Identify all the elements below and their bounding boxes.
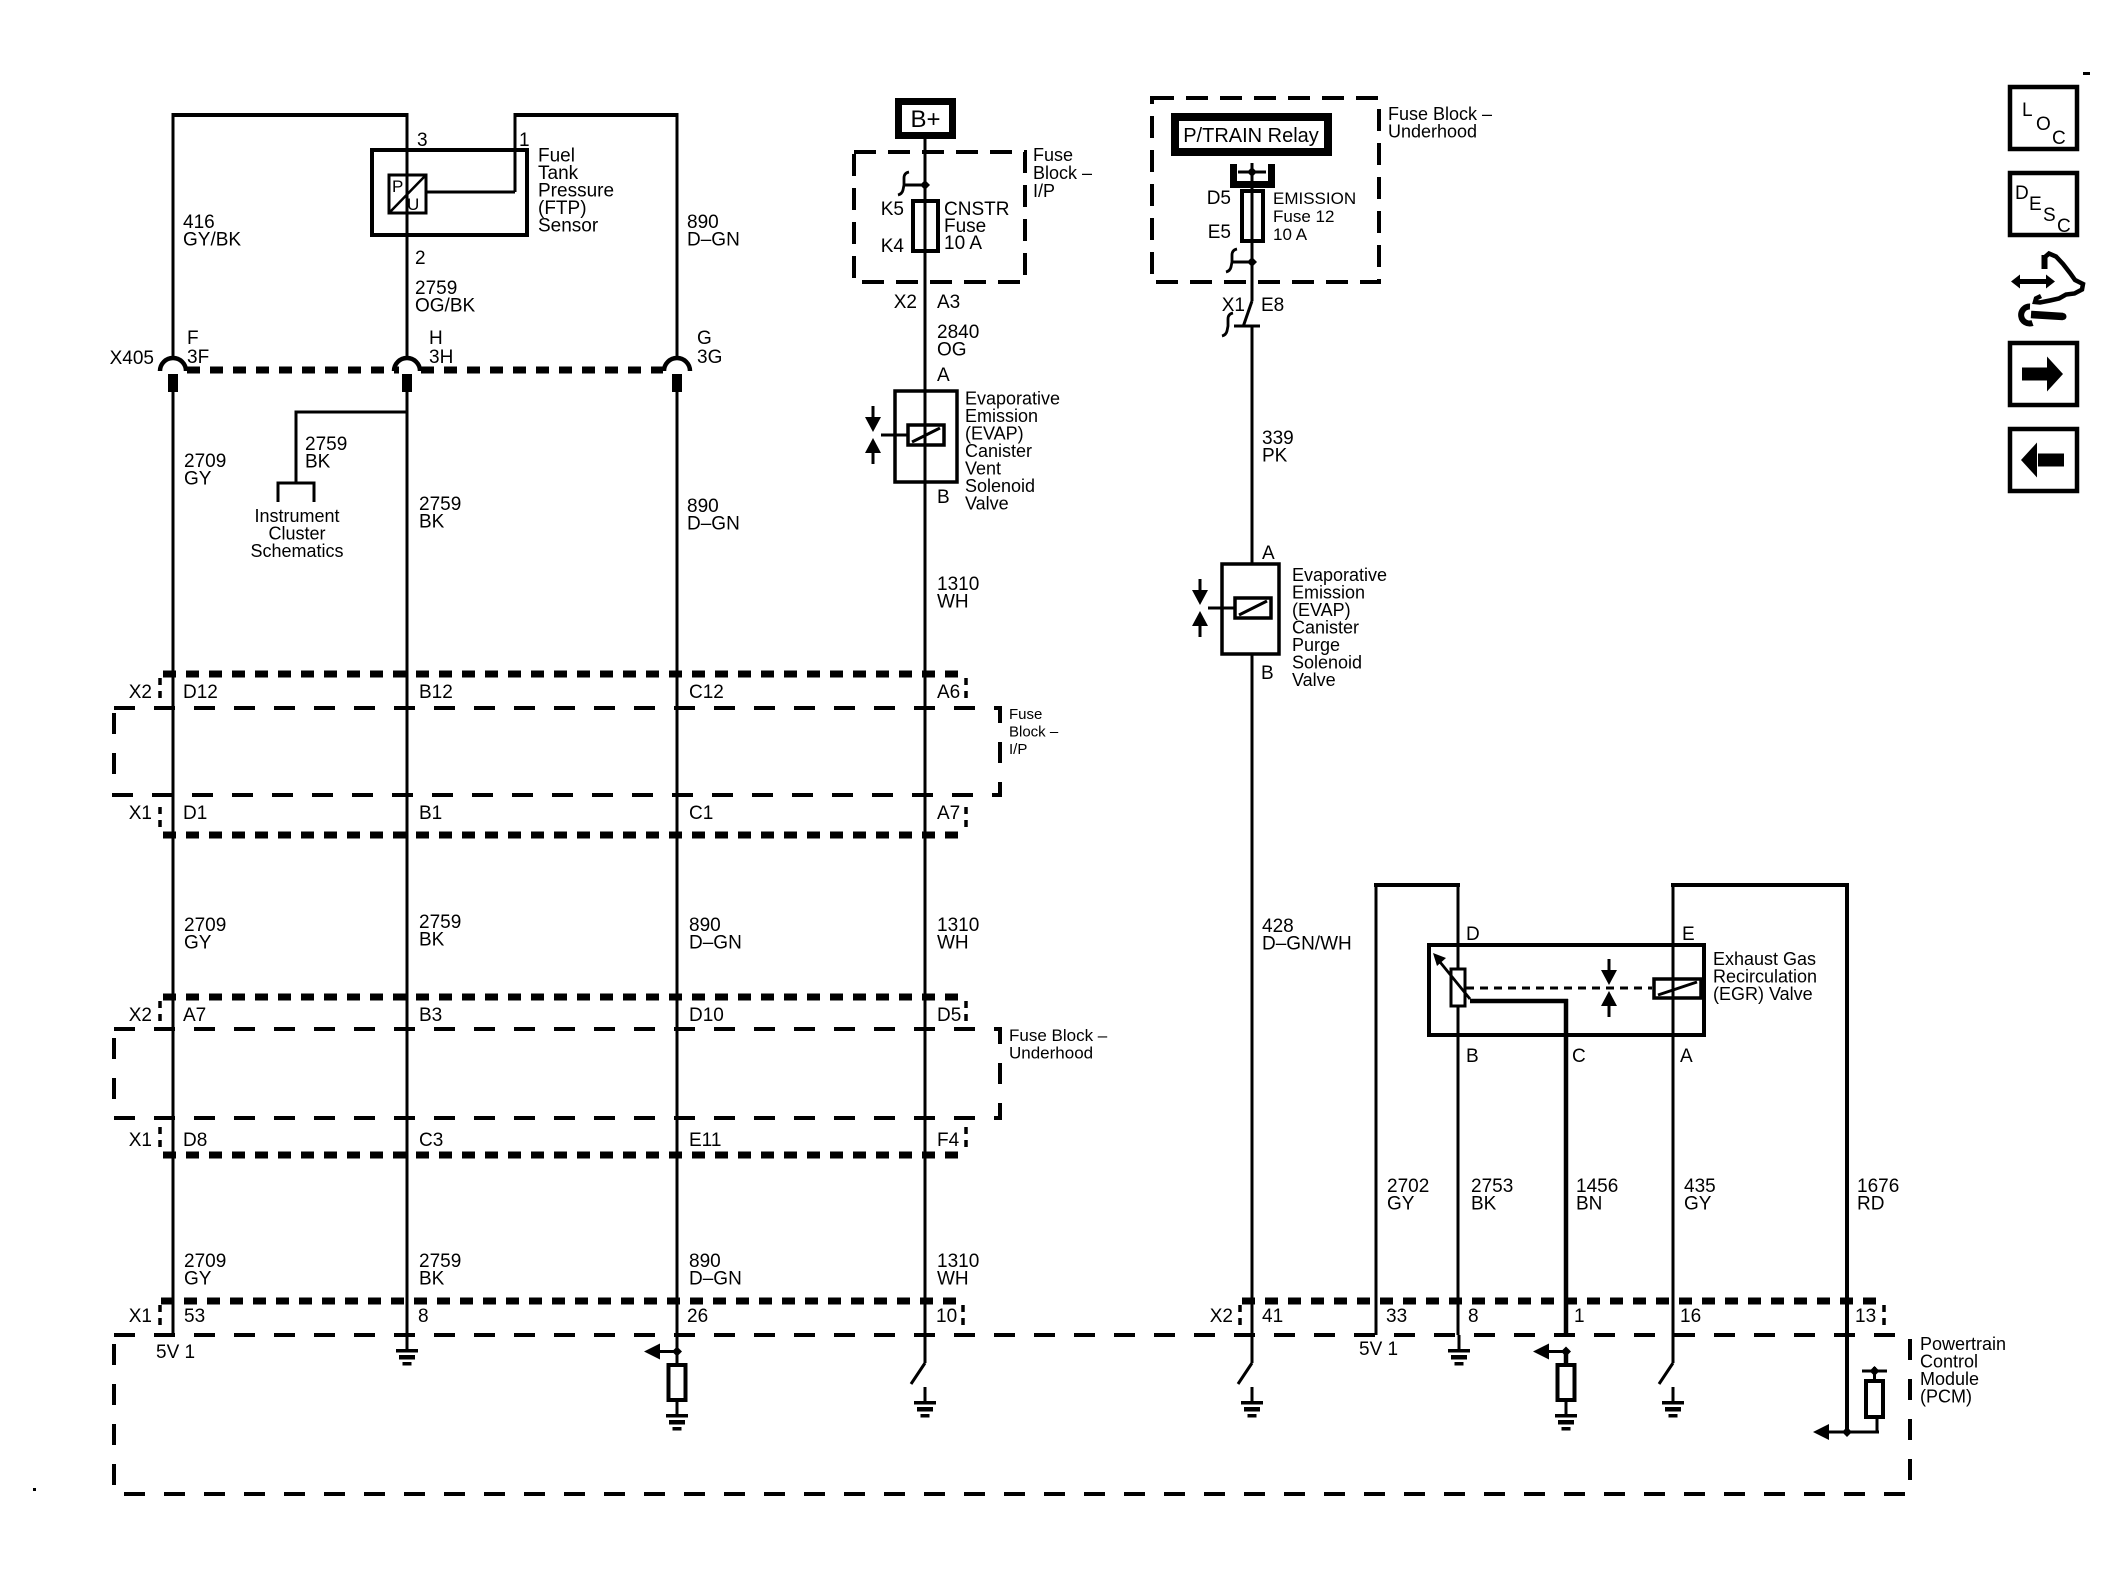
PCM output driver pin 26 (660, 1350, 677, 1353)
internal connection hook CNSTR (903, 184, 925, 187)
wire 2759 OG/BK pin 2 (406, 113, 409, 359)
wire 416 GY/BK vertical (172, 113, 175, 359)
connector X405 dashed line (187, 367, 399, 374)
svg-text:D10: D10 (689, 1005, 724, 1026)
connector row X2 PCM dotted line (1242, 1298, 1884, 1305)
svg-text:E8: E8 (1261, 295, 1284, 316)
car diagnostic icon outline (2042, 255, 2048, 269)
relay output bracket (1234, 164, 1272, 185)
svg-text:A7: A7 (183, 1005, 206, 1026)
EGR potentiometer (1451, 969, 1465, 1006)
svg-text:3: 3 (417, 130, 428, 151)
PCM switch to ground pin 16 (1659, 1363, 1673, 1384)
connector row X1 fuse block I/P dotted line (163, 832, 966, 839)
connector row X1 fuse block underhood dotted line (163, 1152, 966, 1159)
svg-text:C12: C12 (689, 682, 724, 703)
fuse block underhood dashed outline (114, 1029, 1000, 1118)
svg-text:2: 2 (415, 248, 426, 269)
svg-text:WH: WH (937, 592, 969, 613)
svg-text:B: B (1261, 663, 1274, 684)
LOC icon box (2010, 87, 2077, 149)
svg-text:Fuse 12: Fuse 12 (1273, 207, 1334, 226)
svg-text:Sensor: Sensor (538, 216, 599, 237)
svg-text:X1: X1 (1222, 295, 1245, 316)
svg-text:E5: E5 (1208, 222, 1231, 243)
fuse block underhood dashed box (1152, 98, 1379, 282)
connector X405 terminal F bump (160, 358, 186, 371)
wire 2759 BK vertical (406, 392, 409, 1335)
svg-text:BK: BK (305, 452, 331, 473)
svg-text:Valve: Valve (965, 494, 1009, 514)
fuse block I/P dashed outline (114, 708, 1000, 795)
back arrow icon box (2010, 429, 2077, 491)
svg-text:Fuse: Fuse (1009, 706, 1042, 723)
svg-text:3F: 3F (187, 347, 209, 368)
svg-text:OG: OG (937, 340, 967, 361)
car diagnostic icon double arrow (2019, 279, 2047, 284)
svg-text:X405: X405 (110, 348, 154, 369)
vent valve stub to pneumatic valve (881, 434, 895, 437)
branch wire to instrument cluster (296, 411, 407, 414)
svg-text:A3: A3 (937, 292, 960, 313)
svg-text:F4: F4 (937, 1130, 960, 1151)
PCM output driver pin 1 (1549, 1350, 1566, 1353)
svg-text:PK: PK (1262, 446, 1288, 467)
junction diamond CNSTR feed (920, 180, 930, 190)
P/TRAIN relay box (1171, 113, 1332, 156)
svg-text:B3: B3 (419, 1005, 442, 1026)
svg-text:GY: GY (1387, 1194, 1415, 1215)
svg-text:A: A (937, 365, 950, 386)
fuel tank pressure sensor box (372, 150, 527, 235)
svg-text:13: 13 (1855, 1306, 1876, 1327)
svg-text:O: O (2036, 114, 2051, 135)
EGR solenoid coil (1654, 979, 1701, 998)
svg-text:B+: B+ (910, 106, 940, 133)
wire top horizontal to FTP pin 3 (172, 113, 409, 117)
PCM switch to ground pin 41 (1238, 1363, 1252, 1384)
svg-text:A6: A6 (937, 682, 960, 703)
forward arrow icon box (2010, 343, 2077, 405)
wire 2702 GY branch (1375, 883, 1378, 1335)
svg-text:BN: BN (1576, 1194, 1602, 1215)
EGR wiper thick wire (1470, 999, 1568, 1004)
svg-text:B: B (1466, 1046, 1479, 1067)
wire 339 PK with connector jog (1251, 282, 1254, 301)
svg-text:P/TRAIN Relay: P/TRAIN Relay (1183, 125, 1319, 147)
svg-text:U: U (407, 195, 419, 214)
FTP P/U transducer symbol (389, 175, 426, 213)
svg-text:10: 10 (936, 1306, 957, 1327)
svg-text:EMISSION: EMISSION (1273, 189, 1356, 208)
wire top horizontal FTP pin 1 to wire 890 (514, 113, 679, 117)
svg-text:5V 1: 5V 1 (1359, 1339, 1398, 1360)
svg-text:GY: GY (184, 1269, 212, 1290)
EGR pot arrow (1440, 962, 1470, 999)
svg-text:X2: X2 (894, 292, 917, 313)
purge valve stub to pneumatic valve (1208, 607, 1222, 610)
svg-text:(PCM): (PCM) (1920, 1387, 1972, 1407)
svg-text:Fuse: Fuse (1033, 145, 1073, 165)
svg-text:X1: X1 (129, 1306, 152, 1327)
svg-text:10 A: 10 A (1273, 225, 1308, 244)
svg-text:WH: WH (937, 933, 969, 954)
svg-text:RD: RD (1857, 1194, 1884, 1215)
connector row X1 PCM dotted line (161, 1298, 961, 1305)
svg-text:B12: B12 (419, 682, 453, 703)
svg-text:33: 33 (1386, 1306, 1407, 1327)
svg-text:D–GN: D–GN (687, 514, 740, 535)
svg-text:X2: X2 (129, 682, 152, 703)
wire 428 D-GN/WH vertical (1251, 654, 1254, 1363)
PCM driver pin 13 with pull-up (1829, 1431, 1879, 1434)
svg-text:D–GN: D–GN (689, 1269, 742, 1290)
svg-text:P: P (392, 177, 403, 196)
connector row X2 fuse block underhood dotted line (163, 994, 966, 1001)
svg-text:E11: E11 (689, 1130, 721, 1151)
EVAP canister purge solenoid valve box (1222, 564, 1279, 654)
powertrain control module dashed box (114, 1335, 1910, 1494)
vent valve solenoid coil (908, 425, 944, 445)
EGR pneumatic valve symbol (1608, 959, 1611, 971)
svg-text:I/P: I/P (1009, 741, 1027, 758)
wire relay to fuse 12 (1251, 172, 1254, 282)
svg-text:S: S (2043, 205, 2056, 226)
fuse block I/P dashed box (854, 152, 1025, 282)
svg-text:1: 1 (519, 130, 530, 151)
vent valve pneumatic symbol (872, 406, 875, 418)
svg-text:D: D (1466, 924, 1480, 945)
svg-text:C: C (2057, 216, 2071, 237)
svg-text:3G: 3G (697, 347, 722, 368)
svg-text:K5: K5 (881, 199, 904, 220)
PCM ground pin 8 left (406, 1335, 409, 1350)
svg-text:B: B (937, 487, 950, 508)
svg-text:E: E (1682, 924, 1695, 945)
wire FTP internal to P/U (426, 191, 515, 194)
goes-to bracket instrument cluster (278, 483, 314, 502)
svg-text:BK: BK (419, 1269, 445, 1290)
svg-text:C: C (2052, 128, 2066, 149)
wire 890 D-GN vertical 2 (676, 392, 679, 1352)
EMISSION fuse symbol (1242, 191, 1263, 241)
svg-text:C: C (1572, 1046, 1586, 1067)
svg-text:26: 26 (687, 1306, 708, 1327)
svg-text:H: H (429, 328, 443, 349)
EVAP canister vent solenoid valve box (895, 391, 957, 482)
svg-text:D5: D5 (1207, 188, 1231, 209)
svg-text:8: 8 (1468, 1306, 1479, 1327)
purge valve solenoid coil (1235, 598, 1271, 618)
svg-text:Fuse Block –: Fuse Block – (1009, 1026, 1108, 1045)
svg-text:A7: A7 (937, 803, 960, 824)
svg-text:Underhood: Underhood (1388, 122, 1477, 142)
svg-text:Block –: Block – (1033, 163, 1092, 183)
svg-text:X1: X1 (129, 803, 152, 824)
svg-text:53: 53 (184, 1306, 205, 1327)
EGR dashed actuation line (1466, 987, 1652, 990)
svg-text:B1: B1 (419, 803, 442, 824)
svg-text:OG/BK: OG/BK (415, 296, 476, 317)
svg-text:X2: X2 (1210, 1306, 1233, 1327)
svg-text:WH: WH (937, 1269, 969, 1290)
svg-text:GY: GY (1684, 1194, 1712, 1215)
connector row X2 fuse block I/P dotted line (163, 671, 966, 678)
DESC icon box (2010, 173, 2077, 235)
svg-text:GY: GY (184, 469, 212, 490)
svg-text:D12: D12 (183, 682, 218, 703)
purge valve pneumatic symbol (1199, 579, 1202, 591)
svg-text:X2: X2 (129, 1005, 152, 1026)
svg-text:X1: X1 (129, 1130, 152, 1151)
wire EGR pin D (1457, 885, 1460, 969)
internal connection hook emission fuse (1231, 261, 1252, 264)
svg-text:BK: BK (419, 930, 445, 951)
wire 2709 GY vertical (172, 392, 175, 1335)
svg-text:D: D (2015, 183, 2029, 204)
svg-text:C1: C1 (689, 803, 713, 824)
connector X405 terminal H bump (394, 358, 420, 371)
connector X405 terminal G bump (664, 358, 690, 371)
wire EGR pin E top (1672, 883, 1675, 1363)
wire FTP pin 1 (514, 115, 517, 192)
svg-text:D–GN: D–GN (689, 933, 742, 954)
svg-text:BK: BK (1471, 1194, 1497, 1215)
B+ battery feed box (895, 98, 956, 139)
svg-text:D8: D8 (183, 1130, 207, 1151)
svg-text:A: A (1680, 1046, 1693, 1067)
svg-text:GY/BK: GY/BK (183, 230, 241, 251)
svg-text:D–GN: D–GN (687, 230, 740, 251)
svg-text:Valve: Valve (1292, 670, 1336, 690)
svg-text:F: F (187, 328, 199, 349)
svg-text:GY: GY (184, 933, 212, 954)
svg-text:3H: 3H (429, 347, 453, 368)
EGR valve box (1429, 945, 1704, 1035)
svg-text:A: A (1262, 543, 1275, 564)
svg-text:Schematics: Schematics (250, 541, 343, 561)
svg-text:D1: D1 (183, 803, 207, 824)
svg-text:D–GN/WH: D–GN/WH (1262, 934, 1352, 955)
CNSTR fuse symbol (913, 201, 938, 251)
svg-text:E: E (2029, 194, 2042, 215)
svg-text:G: G (697, 328, 712, 349)
svg-text:(EGR) Valve: (EGR) Valve (1713, 984, 1813, 1004)
svg-text:I/P: I/P (1033, 181, 1055, 201)
junction diamond relay output (1251, 163, 1254, 172)
svg-text:Underhood: Underhood (1009, 1044, 1093, 1063)
stray mark top right (2083, 72, 2090, 75)
svg-text:1: 1 (1574, 1306, 1585, 1327)
svg-text:5V 1: 5V 1 (156, 1342, 195, 1363)
svg-text:41: 41 (1262, 1306, 1283, 1327)
PCM switch to ground pin 10 (911, 1363, 925, 1384)
svg-text:L: L (2022, 100, 2033, 121)
svg-text:Block –: Block – (1009, 724, 1059, 741)
wire top horizontal to 1676 RD (1671, 883, 1849, 887)
stray mark bottom left (33, 1488, 36, 1491)
svg-text:D5: D5 (937, 1005, 961, 1026)
junction diamond emission out (1247, 257, 1257, 267)
svg-text:BK: BK (419, 512, 445, 533)
svg-text:8: 8 (418, 1306, 429, 1327)
svg-text:C3: C3 (419, 1130, 443, 1151)
car diagnostic icon wrench (2021, 306, 2032, 323)
wire 1310 WH vertical (924, 139, 927, 1363)
PCM ground pin 8 right (1458, 1335, 1461, 1350)
wire 1676 RD vertical (1845, 883, 1849, 1432)
wire 890 D-GN vertical (676, 113, 679, 359)
svg-text:K4: K4 (881, 236, 905, 257)
svg-text:10 A: 10 A (944, 233, 982, 254)
svg-text:16: 16 (1680, 1306, 1701, 1327)
